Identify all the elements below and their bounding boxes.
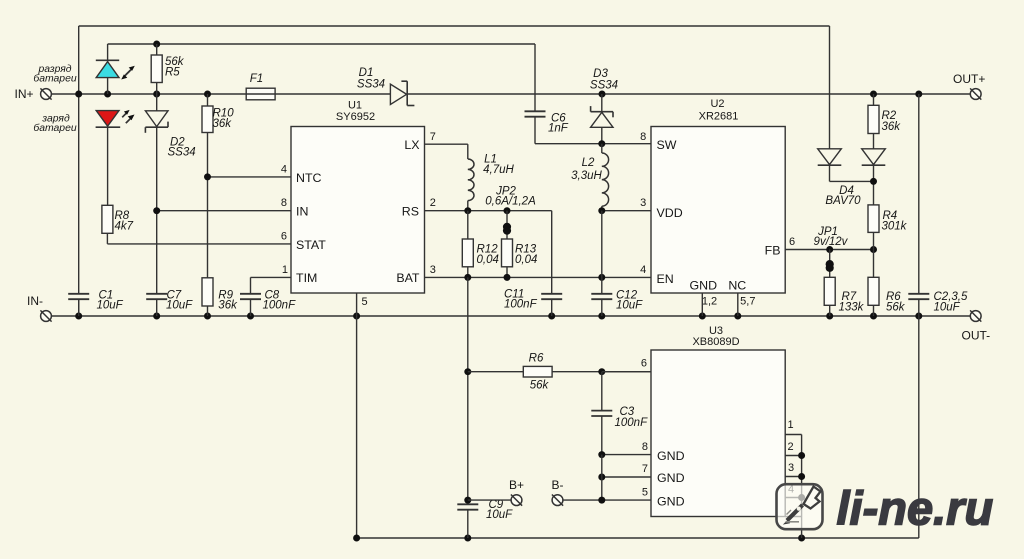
inductor L2: [602, 144, 609, 211]
wire U3 GND pin7 line: [602, 476, 651, 478]
svg-text:4: 4: [281, 164, 287, 176]
svg-text:10uF: 10uF: [934, 301, 961, 313]
svg-text:li-ne.ru: li-ne.ru: [837, 482, 994, 535]
pin numbers U2 bottom 1,2 and 5,7: [702, 295, 756, 307]
terminal OUT-: [970, 310, 981, 321]
wire L2-C12 vertical: [601, 211, 603, 294]
svg-text:R6: R6: [529, 352, 544, 364]
svg-text:SS34: SS34: [357, 79, 385, 91]
svg-text:6: 6: [789, 236, 795, 248]
wire U3 GND pin8 line: [602, 454, 651, 456]
svg-text:GND: GND: [690, 278, 718, 292]
svg-text:10uF: 10uF: [97, 300, 124, 312]
resistor R13: [502, 239, 513, 277]
svg-text:5: 5: [362, 296, 368, 308]
svg-text:GND: GND: [657, 449, 685, 463]
svg-text:GND: GND: [657, 494, 685, 508]
svg-text:STAT: STAT: [296, 238, 326, 252]
U3 output pins 1-4 stubs: [785, 435, 801, 539]
wire U1 pin5 ground stub: [356, 293, 358, 538]
resistor R2: [868, 94, 879, 149]
svg-text:56k: 56k: [886, 301, 906, 313]
wire TIM pin1 to C8: [251, 276, 292, 278]
svg-text:0,04: 0,04: [515, 254, 537, 266]
svg-text:10uF: 10uF: [166, 300, 193, 312]
svg-text:3,3uH: 3,3uH: [571, 170, 602, 182]
LED cyan arrows: [121, 66, 135, 80]
diode D4 BAV70 right half: [862, 149, 886, 205]
svg-text:3: 3: [640, 197, 646, 209]
svg-text:OUT-: OUT-: [962, 329, 991, 343]
wire U3 pin6 connects R6 line: [602, 371, 651, 373]
wire BAT pin3 to EN pin4 line: [425, 276, 652, 278]
IC U3 XB8089D box: [651, 350, 785, 517]
svg-text:VDD: VDD: [657, 206, 683, 220]
svg-text:4: 4: [640, 264, 646, 276]
diode D4 BAV70 left half: [818, 149, 874, 182]
capacitor C9: [457, 497, 478, 538]
terminal IN-: [40, 310, 51, 321]
svg-text:EN: EN: [657, 272, 674, 286]
svg-text:133k: 133k: [839, 301, 865, 313]
svg-text:301k: 301k: [882, 221, 908, 233]
pin names U2: [657, 138, 781, 292]
svg-text:BAT: BAT: [396, 271, 420, 285]
node junction GND7: [598, 474, 605, 481]
svg-text:U2: U2: [710, 98, 724, 110]
pin numbers U3 left 8 7 5: [642, 441, 648, 499]
capacitor C8: [240, 294, 261, 316]
node junction D2-IN: [153, 207, 160, 214]
svg-text:1: 1: [282, 264, 288, 276]
capacitor C12: [591, 294, 612, 316]
capacitor C3: [591, 372, 612, 455]
svg-text:1: 1: [787, 419, 793, 431]
resistor R10: [202, 94, 213, 278]
wire U2 GND pins 1,2 stub: [701, 293, 703, 316]
wire C1 C7 bottom stubs: [78, 299, 80, 316]
svg-text:6: 6: [281, 231, 287, 243]
terminal B+ with stub: [468, 495, 522, 506]
diode D2 SS34: [145, 94, 168, 294]
pin names U3 GND: [657, 449, 685, 509]
svg-text:2: 2: [430, 197, 436, 209]
svg-text:IN-: IN-: [27, 294, 43, 308]
node junctions on FB line: [826, 246, 833, 253]
svg-text:5: 5: [642, 486, 648, 498]
svg-text:3: 3: [430, 264, 436, 276]
wire U3 GND pin5 line and B- net: [601, 455, 603, 501]
pin numbers U2 8 3 4 6: [640, 131, 795, 276]
pin numbers U1 left 4 8 6 1: [281, 164, 288, 276]
pin numbers U3 right 1 2 3 4: [787, 419, 794, 496]
svg-text:B+: B+: [509, 478, 524, 492]
svg-text:10uF: 10uF: [486, 509, 513, 521]
svg-text:IN: IN: [296, 205, 308, 219]
node junctions on IN- rail: [75, 313, 82, 320]
svg-text:6: 6: [641, 358, 647, 370]
svg-text:4k7: 4k7: [115, 221, 134, 233]
wire bottom ground bus: [357, 537, 919, 539]
svg-text:8: 8: [642, 441, 648, 453]
node junction R10-NTC: [204, 173, 211, 180]
fuse F1: [246, 88, 275, 100]
svg-text:D1: D1: [359, 67, 374, 79]
svg-text:L2: L2: [582, 157, 595, 169]
node junction R6 line left: [464, 368, 471, 375]
terminal IN+: [40, 88, 51, 99]
svg-text:D3: D3: [593, 68, 608, 80]
jumper JP2: [503, 211, 511, 239]
jumper JP1: [826, 250, 834, 278]
svg-text:F1: F1: [250, 73, 263, 85]
svg-text:3: 3: [788, 462, 794, 474]
svg-text:0,6A/1,2A: 0,6A/1,2A: [485, 195, 536, 207]
wire BAT branch down to R6 line and C9: [467, 277, 469, 504]
svg-text:TIM: TIM: [296, 271, 317, 285]
watermark logo box with pencil icon: [777, 484, 823, 529]
capacitor C1: [68, 294, 89, 299]
wire left vertical IN+ branch to C1: [78, 26, 80, 294]
svg-text:FB: FB: [765, 243, 781, 257]
svg-text:SW: SW: [657, 138, 677, 152]
resistor R4: [868, 205, 879, 250]
resistor R8: [102, 205, 113, 244]
svg-text:R5: R5: [165, 67, 180, 79]
wire top rail (IN+ to D4 branch): [79, 25, 830, 27]
wire second rail (LED/R5 row to C6): [108, 43, 535, 45]
node junction D4 common cathode: [870, 178, 877, 185]
svg-text:B-: B-: [552, 478, 564, 492]
wire OUT- branch down to bottom ground wire: [918, 316, 920, 538]
wire SW pin8 line: [535, 143, 651, 145]
svg-text:GND: GND: [657, 471, 685, 485]
node junction C3 top: [598, 368, 605, 375]
node junctions on RS line: [464, 207, 471, 214]
svg-text:NTC: NTC: [296, 171, 322, 185]
resistor R9: [202, 278, 213, 316]
svg-text:RS: RS: [402, 205, 419, 219]
svg-text:8: 8: [281, 197, 287, 209]
capacitor C6 branch from second rail: [525, 44, 546, 144]
node junction GND8: [598, 451, 605, 458]
svg-text:LX: LX: [404, 138, 419, 152]
wire LX pin7 to L1: [425, 143, 468, 145]
IC U1 SY6952 box: [291, 127, 425, 294]
svg-text:батареи: батареи: [33, 73, 76, 85]
wire NTC pin4 to R10: [208, 176, 292, 178]
svg-text:U1: U1: [348, 100, 362, 112]
resistor R5: [151, 44, 162, 94]
wire RS pin2 line to C11 branch: [425, 210, 552, 212]
resistor R6 (output divider): [868, 250, 879, 317]
LED red arrows: [122, 110, 134, 123]
wire L1 to RS line: [467, 201, 469, 211]
resistor R7: [824, 277, 835, 316]
pin names U1: [296, 138, 420, 285]
svg-text:36k: 36k: [218, 300, 238, 312]
svg-text:2: 2: [787, 441, 793, 453]
svg-text:батареи: батареи: [33, 122, 76, 134]
diode D3 SS34: [591, 94, 613, 144]
capacitor C2,3,5: [908, 94, 929, 316]
capacitor C7: [146, 294, 167, 299]
diode D1 SS34: [390, 81, 414, 105]
wire main IN+ rail: [51, 93, 246, 95]
node junction GND5: [598, 497, 605, 504]
svg-text:100nF: 100nF: [263, 300, 297, 312]
svg-text:SY6952: SY6952: [336, 111, 375, 123]
svg-text:36k: 36k: [882, 121, 902, 133]
svg-text:36k: 36k: [213, 118, 233, 130]
svg-text:SS34: SS34: [590, 80, 618, 92]
svg-text:4,7uH: 4,7uH: [483, 164, 514, 176]
svg-text:1nF: 1nF: [548, 123, 569, 135]
svg-text:BAV70: BAV70: [825, 195, 861, 207]
svg-text:XR2681: XR2681: [699, 111, 739, 123]
svg-text:7: 7: [642, 463, 648, 475]
svg-text:56k: 56k: [530, 380, 550, 392]
svg-text:OUT+: OUT+: [953, 72, 985, 86]
wire bottom IN- rail: [51, 315, 975, 317]
node junction R5 top: [153, 41, 160, 48]
node junction D3-SW: [598, 140, 605, 147]
svg-text:IN+: IN+: [14, 87, 33, 101]
svg-text:1,2: 1,2: [702, 295, 717, 307]
capacitor C11 with branch from RS: [541, 211, 562, 316]
node junctions U3 output pins: [798, 452, 805, 459]
inductor L1: [468, 159, 474, 201]
terminal B- with stub: [552, 495, 602, 506]
terminal OUT+: [970, 88, 981, 99]
svg-text:5,7: 5,7: [740, 295, 755, 307]
wire VDD pin3 line: [602, 210, 651, 212]
node junctions on IN+ rail: [75, 91, 82, 98]
resistor R12: [462, 211, 473, 278]
wire FB pin6 line: [785, 249, 873, 251]
svg-text:0,04: 0,04: [477, 254, 499, 266]
svg-text:10uF: 10uF: [616, 300, 643, 312]
svg-text:7: 7: [430, 131, 436, 143]
svg-text:NC: NC: [728, 278, 746, 292]
svg-text:100nF: 100nF: [615, 417, 649, 429]
wire top rail drop to D4 left diode: [829, 26, 831, 149]
wire IN pin8 to D2: [157, 210, 291, 212]
node junctions on ground bus: [353, 535, 360, 542]
svg-text:XB8089D: XB8089D: [692, 336, 739, 348]
svg-text:8: 8: [640, 131, 646, 143]
pin numbers U1 right 7 2 3 and bottom 5: [362, 131, 436, 308]
svg-text:SS34: SS34: [168, 146, 196, 158]
node junction L2-VDD: [598, 207, 605, 214]
LED HL1 cyan (discharge) with bar and wires: [96, 44, 119, 94]
resistor R6 (U3 feed): [468, 366, 651, 377]
IC U2 XR2681 box: [651, 127, 785, 294]
wire STAT pin6 to R8: [107, 243, 291, 245]
LED HL2 red (charge) with bar and wires: [96, 111, 121, 206]
svg-text:9v/12v: 9v/12v: [814, 236, 849, 248]
svg-text:100nF: 100nF: [504, 298, 538, 310]
wire U2 NC pins 5,7 stub: [737, 293, 739, 316]
node junctions on BAT-EN line: [464, 274, 471, 281]
